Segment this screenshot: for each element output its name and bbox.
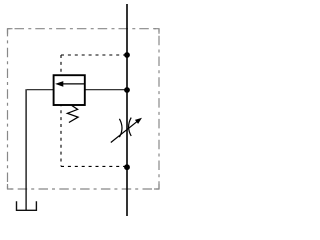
enclosure boundary top edge (dash-dot) (8, 28, 160, 30)
node B (junction dot middle) (124, 87, 130, 93)
enclosure corner mark bottom-left (8, 184, 13, 189)
pilot line (dashed) vertical run behind valve (60, 55, 62, 166)
variable throttle V2: arcs (119, 119, 122, 137)
valve flow arrow (points left) (63, 83, 85, 85)
valve body V1 (square) (54, 75, 85, 105)
enclosure corner mark top-left (8, 29, 13, 34)
wire: valve inlet from main line (85, 89, 127, 91)
main line P (vertical) (126, 4, 128, 216)
wire: tank pipe vertical run (25, 89, 27, 210)
spring (zigzag below valve) (67, 106, 78, 123)
wire: valve outlet horizontal run (27, 89, 54, 91)
tank T (17, 201, 37, 210)
node C (junction dot bottom) (124, 164, 130, 170)
enclosure boundary right edge (dash-dot) (158, 29, 160, 189)
variable throttle adjustment arrow (diagonal) (111, 121, 138, 142)
enclosure corner mark top-right (154, 29, 159, 34)
enclosure boundary left edge (dash-dot) (7, 29, 9, 189)
node A (junction dot top) (124, 52, 130, 58)
enclosure corner mark bottom-right (154, 184, 159, 189)
enclosure boundary bottom edge (dash-dot) (8, 188, 160, 190)
pilot line (dashed) bottom run: corner to node C (61, 165, 126, 167)
pilot line (dashed) top run: node A to corner (61, 54, 126, 56)
